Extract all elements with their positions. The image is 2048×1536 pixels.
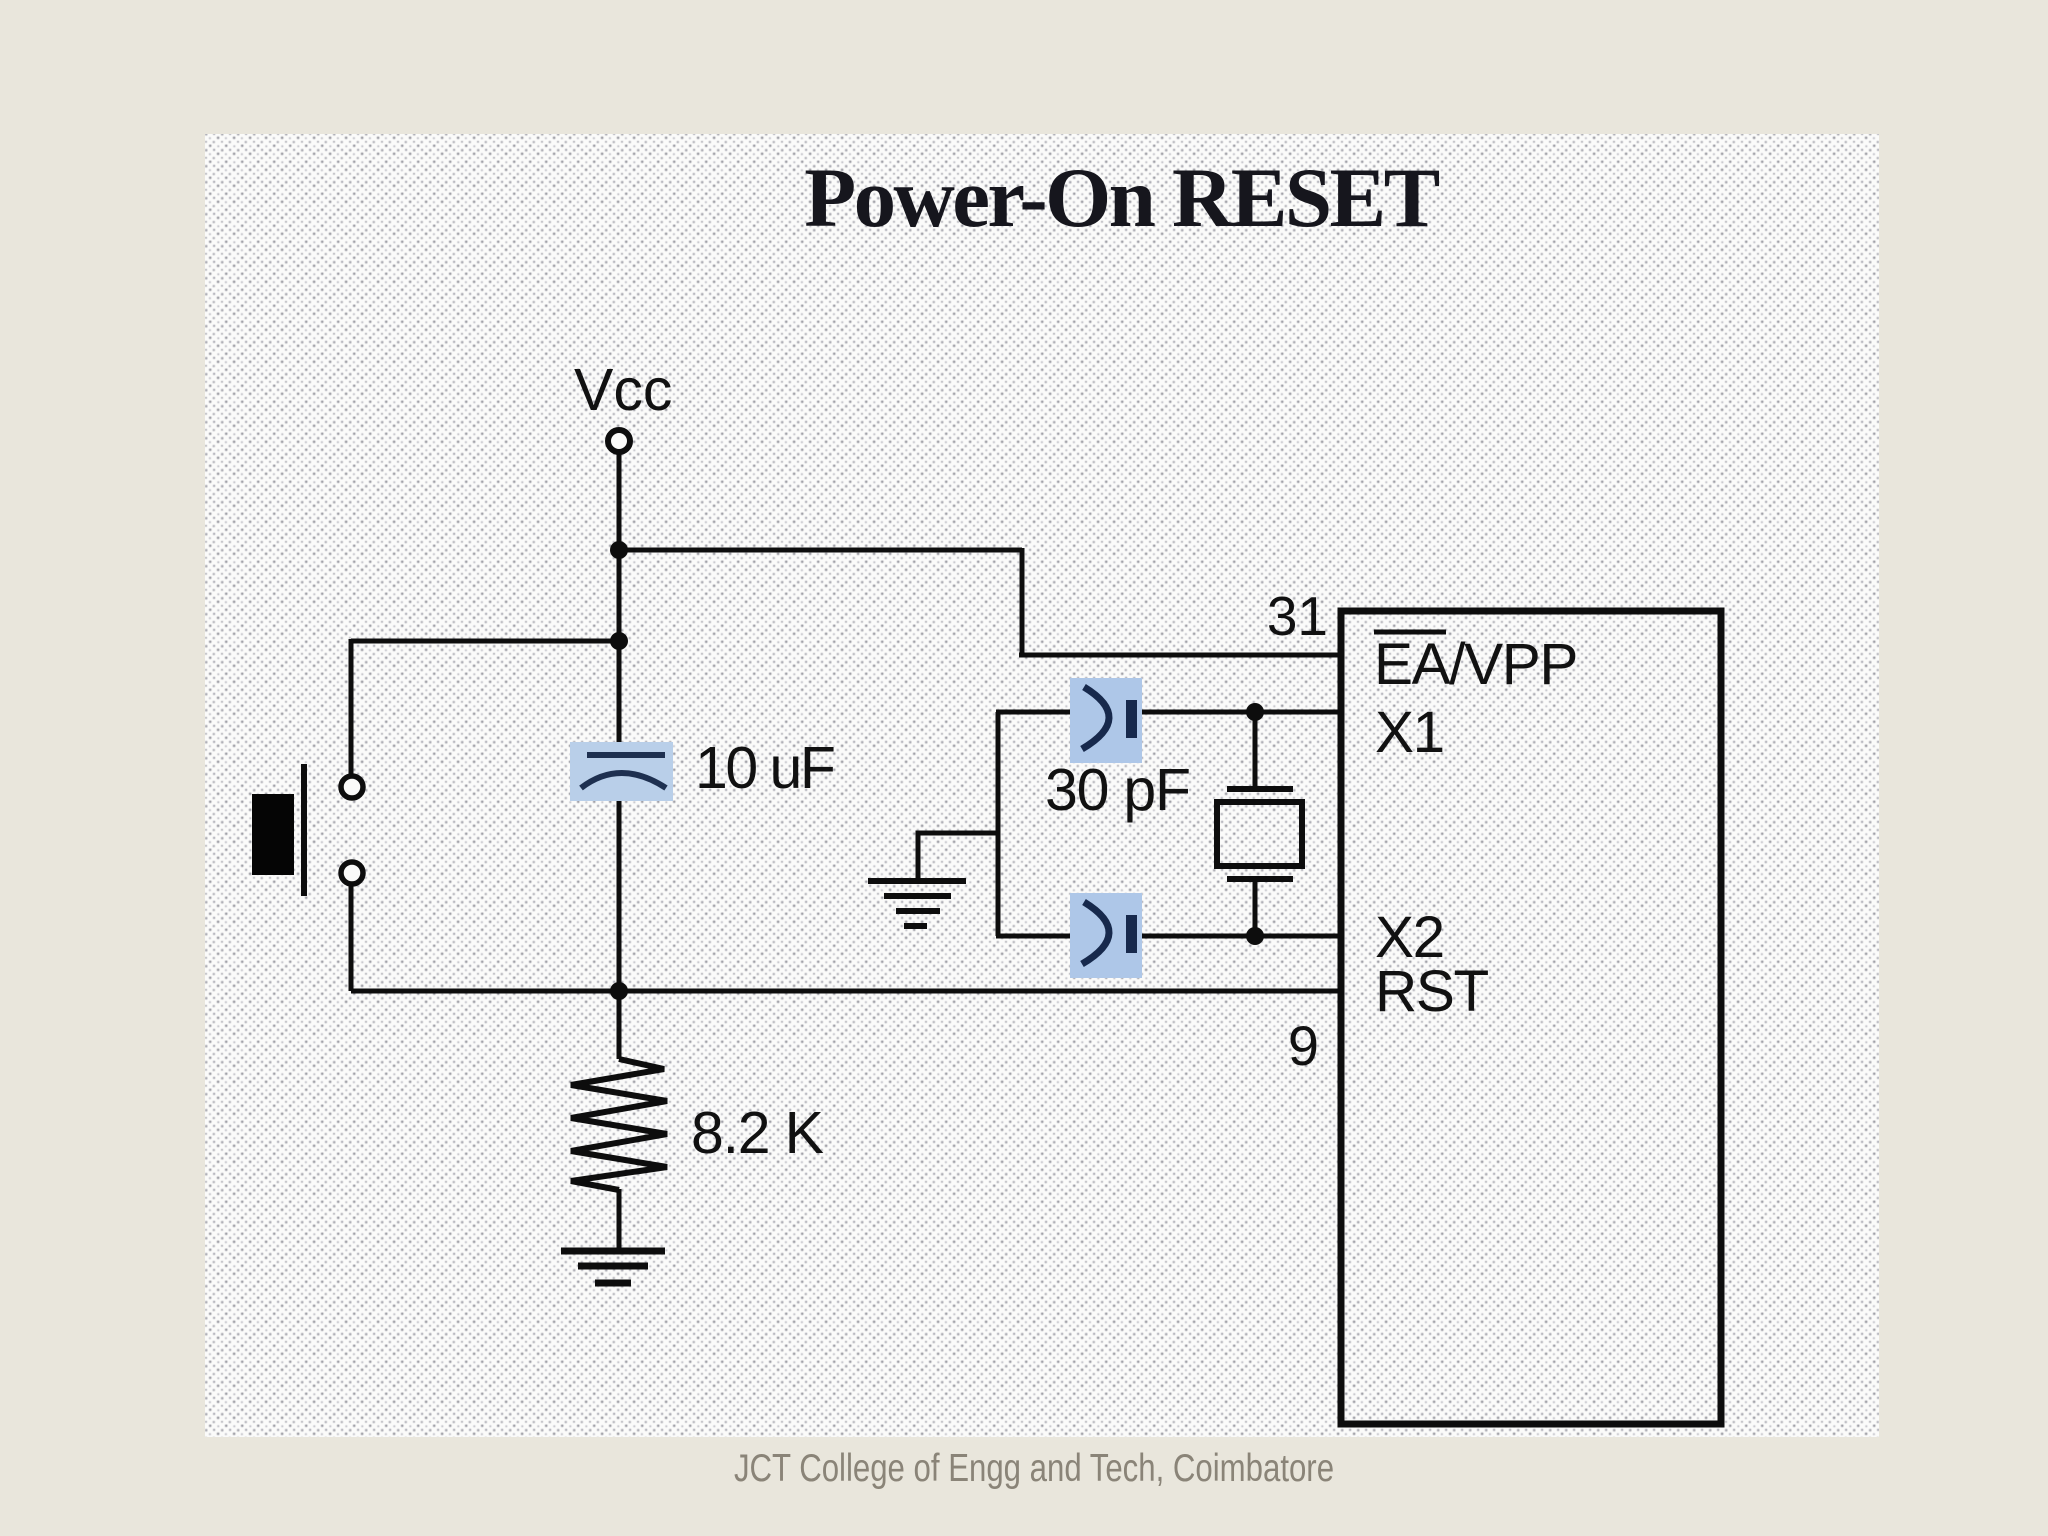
wire resistor to ground xyxy=(617,1189,622,1252)
svg-text:8.2 K: 8.2 K xyxy=(691,1100,824,1166)
svg-text:RST: RST xyxy=(1375,959,1488,1024)
wire middle ground stub xyxy=(918,833,998,878)
capacitor C3 bar plate xyxy=(1126,915,1137,953)
svg-text:EA/VPP: EA/VPP xyxy=(1374,632,1577,697)
crystal Y1 top plate xyxy=(1227,786,1293,792)
pushbutton switch bar xyxy=(301,764,307,896)
svg-text:JCT College of Engg and Tech,: JCT College of Engg and Tech, Coimbatore xyxy=(734,1447,1334,1490)
crystal Y1 bottom plate xyxy=(1227,876,1293,882)
wire capacitor C2 right to X1 pin xyxy=(1138,710,1341,715)
capacitor C1 highlight xyxy=(570,742,673,801)
pushbutton switch pole bottom xyxy=(341,862,363,884)
Vcc terminal circle xyxy=(608,430,630,452)
junction dot X2 xyxy=(1246,927,1264,945)
IC U1 body xyxy=(1341,611,1721,1424)
wire Vcc terminal to junction A xyxy=(617,453,622,756)
svg-text:9: 9 xyxy=(1288,1014,1319,1077)
capacitor C3 highlight xyxy=(1070,893,1142,978)
wire crystal bottom stub xyxy=(1253,882,1258,936)
wire crystal top stub xyxy=(1253,712,1258,786)
pin EA overline xyxy=(1374,630,1446,635)
junction dot B xyxy=(610,632,628,650)
resistor R1 zigzag xyxy=(571,1059,667,1190)
pushbutton switch pole top xyxy=(341,776,363,798)
capacitor C1 top plate xyxy=(587,752,665,758)
svg-text:30 pF: 30 pF xyxy=(1045,757,1190,823)
junction dot A xyxy=(610,541,628,559)
pushbutton switch plunger xyxy=(252,794,294,875)
capacitor C2 bar plate xyxy=(1126,700,1137,738)
ground (below resistor) xyxy=(561,1251,665,1283)
capacitor C2 curved plate xyxy=(1082,687,1109,749)
svg-text:Vcc: Vcc xyxy=(574,357,672,423)
ground (oscillator) xyxy=(868,881,966,926)
wire switch bottom to RST rail xyxy=(349,886,354,991)
junction dot X1 xyxy=(1246,703,1264,721)
dotted schematic panel xyxy=(205,134,1879,1437)
svg-text:Power-On RESET: Power-On RESET xyxy=(804,151,1439,245)
junction dot RST rail xyxy=(610,982,628,1000)
capacitor C2 highlight xyxy=(1070,678,1142,763)
svg-text:X1: X1 xyxy=(1375,700,1444,765)
wire capacitor C3 right to X2 pin xyxy=(1138,934,1341,939)
wire RST rail xyxy=(351,989,1341,994)
wire junction A to corner (top horizontal) xyxy=(619,548,1022,553)
wire to capacitor C2 left xyxy=(996,710,1078,715)
wire capacitor loop left vertical xyxy=(996,712,1001,936)
capacitor C1 curved plate xyxy=(581,773,666,788)
wire to EA/VPP pin 31 xyxy=(1019,653,1341,658)
svg-text:10 uF: 10 uF xyxy=(695,735,834,801)
capacitor C3 curved plate xyxy=(1082,902,1109,964)
wire junction B to switch top xyxy=(351,639,619,644)
wire below capacitor C1 xyxy=(617,770,622,1059)
wire to capacitor C3 left xyxy=(996,934,1078,939)
wire corner down xyxy=(1020,548,1025,655)
svg-text:31: 31 xyxy=(1267,585,1328,647)
crystal Y1 body xyxy=(1217,802,1302,866)
